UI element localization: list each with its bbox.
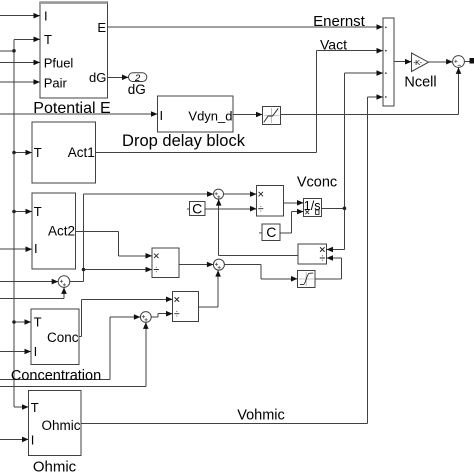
svg-text:C: C [266, 224, 276, 240]
svg-text:Concentration: Concentration [11, 368, 101, 384]
svg-text:dG: dG [128, 82, 146, 97]
svg-text:T: T [34, 204, 42, 219]
svg-text:I: I [34, 241, 38, 256]
svg-text:T: T [34, 145, 42, 160]
svg-text:Potential E: Potential E [33, 100, 110, 117]
svg-text:Ohmic: Ohmic [41, 418, 80, 433]
svg-text:Ncell: Ncell [404, 75, 436, 91]
svg-text:Vconc: Vconc [297, 175, 337, 191]
svg-text:Vohmic: Vohmic [237, 408, 285, 424]
svg-text:C: C [192, 201, 202, 217]
svg-text:Act2: Act2 [48, 224, 75, 239]
svg-text:I: I [31, 432, 35, 447]
svg-text:Drop delay block: Drop delay block [122, 132, 246, 150]
svg-text:Vact: Vact [320, 37, 347, 53]
svg-text:1/s: 1/s [304, 199, 321, 213]
svg-text:T: T [34, 315, 42, 330]
svg-text:Conc: Conc [47, 330, 79, 345]
svg-text:Pair: Pair [44, 75, 68, 90]
svg-text:Ohmic: Ohmic [33, 459, 77, 474]
svg-text:I: I [44, 8, 48, 23]
svg-text:T: T [31, 400, 39, 415]
svg-text:T: T [44, 32, 52, 47]
svg-text:-K-: -K- [413, 58, 422, 67]
svg-text:Vdyn_d: Vdyn_d [188, 109, 232, 124]
svg-text:Act1: Act1 [68, 145, 95, 160]
svg-text:I: I [34, 344, 38, 359]
svg-text:Pfuel: Pfuel [44, 56, 74, 71]
svg-text:I: I [160, 108, 164, 123]
svg-text:dG: dG [89, 70, 106, 85]
svg-text:2: 2 [134, 73, 141, 84]
svg-text:Enernst: Enernst [313, 13, 366, 30]
svg-text:E: E [97, 20, 106, 35]
